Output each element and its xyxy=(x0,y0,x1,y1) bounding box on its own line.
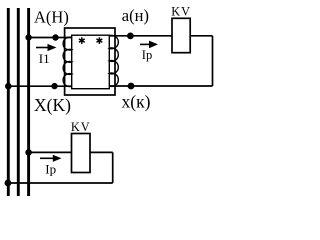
wire X(K) from bus 1 to primary winding xyxy=(8,85,71,87)
svg-text:KV: KV xyxy=(171,4,191,18)
wire right vertical xyxy=(212,36,214,86)
voltmeter KV2 xyxy=(72,134,91,173)
wire lower bottom return to bus 1 xyxy=(8,182,113,184)
transformer T1 core (inner rectangle) xyxy=(72,35,110,88)
svg-text:a(н): a(н) xyxy=(122,6,149,25)
transformer T1 outer case xyxy=(65,28,115,95)
wire lower right vertical xyxy=(112,152,114,183)
wire x(k) bottom return xyxy=(109,85,212,87)
svg-text:Ip: Ip xyxy=(45,161,56,176)
svg-text:A(H): A(H) xyxy=(34,8,69,27)
node A terminal dot xyxy=(52,34,58,40)
voltmeter KV1 xyxy=(172,18,190,52)
svg-text:X(K): X(K) xyxy=(34,95,71,115)
node junction lower on bus 1 xyxy=(5,180,12,187)
bus line 2 xyxy=(17,8,20,196)
arrow Ip lower xyxy=(40,155,62,162)
wire A(H) from bus 3 to primary winding xyxy=(29,37,72,39)
node x terminal dot xyxy=(128,83,135,90)
bus line 1 xyxy=(7,8,10,196)
svg-text:x(к): x(к) xyxy=(122,92,151,112)
node a terminal dot xyxy=(127,33,134,40)
node junction on bus 1 xyxy=(5,83,12,90)
svg-text:KV: KV xyxy=(71,120,91,134)
arrow Ip upper xyxy=(140,41,158,49)
wire a(n) from secondary to KV1 and right xyxy=(109,35,212,37)
node junction on bus 3 xyxy=(25,34,31,40)
svg-text:Ip: Ip xyxy=(142,48,152,62)
node X terminal dot xyxy=(51,83,57,89)
polarity mark primary xyxy=(79,37,85,44)
svg-text:I1: I1 xyxy=(39,51,50,66)
primary winding (left coil) xyxy=(63,37,72,86)
arrow I1 xyxy=(36,44,57,51)
bus line 3 xyxy=(27,8,30,196)
wire lower circuit from bus 3 to KV2 xyxy=(29,151,113,153)
polarity mark secondary xyxy=(97,37,103,44)
node junction lower on bus 3 xyxy=(25,149,32,156)
secondary winding (right coil) xyxy=(109,35,118,86)
